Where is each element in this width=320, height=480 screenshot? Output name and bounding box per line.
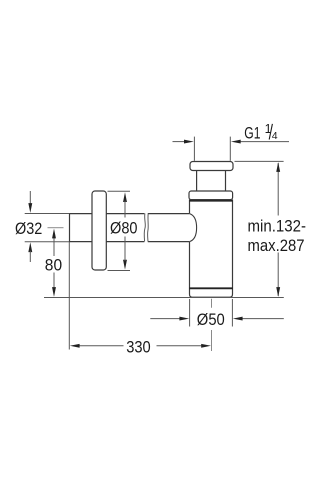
trap body <box>190 200 233 298</box>
dia32 up arrow <box>28 242 32 252</box>
G1 1/4 left arrow <box>173 141 187 143</box>
330 left arrow <box>70 344 80 348</box>
svg-text:G1: G1 <box>244 123 260 142</box>
80 dim line <box>53 237 55 288</box>
inlet pipe <box>70 213 190 242</box>
rosette flange <box>92 191 106 270</box>
330 right arrow <box>201 344 211 348</box>
inlet flare into body <box>190 214 197 242</box>
svg-text:Ø32: Ø32 <box>15 219 42 238</box>
dia80 dimension <box>108 190 131 192</box>
svg-text:min.132-: min.132- <box>248 217 307 236</box>
bottom extension line <box>44 297 284 299</box>
dia50 right arrow <box>241 318 283 320</box>
min/max dimension line <box>277 163 279 296</box>
330 dim line <box>78 345 203 347</box>
dia80 up arrow <box>123 192 127 202</box>
min/max down arrow <box>276 287 280 297</box>
min/max top extension line <box>235 160 284 162</box>
pipe centerline dash <box>48 227 64 229</box>
dia80 down arrow <box>123 260 127 270</box>
svg-text:Ø80: Ø80 <box>110 219 138 238</box>
svg-text:330: 330 <box>126 338 151 357</box>
330 left extension line <box>68 242 70 350</box>
min/max up arrow <box>276 162 280 172</box>
dia32 extension lines <box>25 214 70 242</box>
svg-text:80: 80 <box>45 255 62 274</box>
lower flange nut <box>189 191 233 200</box>
dia50 extension lines <box>190 299 233 327</box>
dia32 down arrow <box>29 191 31 205</box>
80 down arrow <box>52 287 56 297</box>
pipe break gap <box>144 213 147 243</box>
svg-text:4: 4 <box>272 130 278 142</box>
break line left <box>144 213 145 241</box>
neck <box>197 171 226 192</box>
svg-text:max.287: max.287 <box>248 236 305 255</box>
break line right <box>147 214 150 242</box>
body centerline dashes <box>211 299 213 351</box>
svg-text:Ø50: Ø50 <box>197 310 225 329</box>
G1 1/4 extension lines <box>194 137 230 161</box>
body top ring <box>190 200 233 202</box>
dia50 left arrow <box>150 318 181 320</box>
G1 1/4 right arrow <box>239 141 289 143</box>
80 up arrow <box>52 229 56 239</box>
top flange <box>190 162 233 171</box>
body bottom ring <box>189 287 233 289</box>
